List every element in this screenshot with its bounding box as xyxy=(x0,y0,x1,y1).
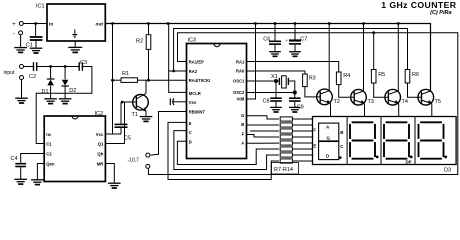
wire F to R9 xyxy=(247,135,280,138)
digit 1 segment diagram xyxy=(319,123,339,141)
node T3 collector xyxy=(362,22,365,25)
svg-text:C3: C3 xyxy=(80,60,87,66)
wire RB0 to -10,7 switch xyxy=(150,112,186,156)
ground under C9 xyxy=(289,106,301,108)
svg-text:E: E xyxy=(313,143,316,148)
svg-text:Vss: Vss xyxy=(189,100,197,105)
svg-text:OSC1: OSC1 xyxy=(233,79,245,84)
svg-text:out: out xyxy=(96,21,104,27)
svg-text:C2: C2 xyxy=(46,151,52,156)
svg-text:T3: T3 xyxy=(368,99,374,105)
svg-text:+: + xyxy=(285,38,288,43)
wire segment D wrap xyxy=(177,141,279,164)
svg-text:T5: T5 xyxy=(435,99,441,105)
node R2 top xyxy=(147,22,150,25)
capacitor C3 xyxy=(78,62,80,71)
svg-text:C: C xyxy=(340,144,344,149)
svg-text:DP: DP xyxy=(406,160,412,165)
wire +V down to IC2 Vcc xyxy=(105,24,112,135)
svg-text:Q1: Q1 xyxy=(98,141,104,146)
svg-text:RA1/EP: RA1/EP xyxy=(189,59,204,64)
wire RA0 to R3 xyxy=(247,71,305,74)
diode D2 xyxy=(64,67,66,80)
ground under Qen xyxy=(31,179,44,181)
wire RA1 to R4 xyxy=(247,62,339,73)
svg-text:D: D xyxy=(189,140,192,145)
input terminal top xyxy=(20,65,24,69)
node T2 collector xyxy=(328,22,331,25)
wire G to R7 xyxy=(247,116,280,119)
svg-text:+: + xyxy=(12,21,16,28)
digit 4 xyxy=(420,121,442,123)
capacitor C2 xyxy=(33,62,35,71)
svg-text:E: E xyxy=(189,121,192,126)
IC1 ground pin stem xyxy=(74,41,76,47)
ground under T1 xyxy=(140,116,153,118)
ground under C7 xyxy=(289,51,301,53)
svg-text:input: input xyxy=(4,70,15,76)
svg-text:R4: R4 xyxy=(343,73,350,79)
ground under IC1 xyxy=(68,46,82,48)
node R1 left xyxy=(111,79,114,82)
ground under C8 xyxy=(270,106,282,108)
svg-text:MCLR: MCLR xyxy=(189,91,201,96)
svg-text:R2: R2 xyxy=(136,39,143,45)
svg-text:D: D xyxy=(326,154,329,159)
svg-text:R3: R3 xyxy=(309,76,316,82)
digit 3 xyxy=(386,121,408,123)
wire Vdd to rail xyxy=(247,24,256,100)
wire Q1 to T1 base xyxy=(105,102,136,144)
ground under C1 xyxy=(30,47,43,49)
svg-text:F: F xyxy=(242,131,245,136)
capacitor on Vss xyxy=(169,98,171,105)
wire + to IC1 in xyxy=(23,23,47,25)
svg-text:G: G xyxy=(241,113,244,118)
wire wrap B RA1 to R5 and DP loop xyxy=(148,33,457,175)
wire input bottom to ground xyxy=(21,80,23,99)
node IC1 out xyxy=(111,22,114,25)
wire segment C wrap xyxy=(174,131,279,170)
ground under C6 xyxy=(269,51,281,53)
transistor T2 xyxy=(317,89,333,105)
svg-text:B: B xyxy=(241,122,244,127)
svg-text:1 GHz COUNTER: 1 GHz COUNTER xyxy=(381,0,457,10)
wire B to R8 xyxy=(247,124,280,126)
ground under D1 xyxy=(44,98,57,100)
svg-text:C4: C4 xyxy=(11,156,18,162)
svg-text:R6: R6 xyxy=(412,72,419,78)
node MCLR feed xyxy=(167,22,170,25)
svg-text:Qen: Qen xyxy=(46,161,55,166)
wire input to C2 xyxy=(24,66,34,68)
wire rail to MCLR xyxy=(169,24,187,93)
transistor T1 xyxy=(133,95,149,111)
svg-text:R1: R1 xyxy=(122,71,129,77)
svg-text:-10,7: -10,7 xyxy=(128,158,140,164)
input terminal bottom xyxy=(20,76,24,80)
svg-text:Vdd: Vdd xyxy=(236,97,244,102)
svg-text:C8: C8 xyxy=(262,99,269,105)
wire C2 to C3 xyxy=(37,66,78,68)
node R5 junction xyxy=(372,31,375,34)
ground under D2 xyxy=(59,98,72,100)
wire OSC1 to X1 xyxy=(247,80,280,82)
capacitor C1 xyxy=(35,24,37,37)
wire OSC2 to C9 xyxy=(247,92,295,94)
ground under C4 xyxy=(14,178,27,180)
digit 2 xyxy=(352,121,374,123)
svg-text:-: - xyxy=(13,31,15,38)
svg-text:RA2: RA2 xyxy=(189,69,198,74)
display cell dividers xyxy=(346,117,348,165)
wire MR to ground xyxy=(105,164,114,184)
+V rail from IC1 out xyxy=(105,24,430,91)
svg-text:MR: MR xyxy=(97,161,105,166)
capacitor C5 xyxy=(121,101,124,104)
resistor network R7-R14 xyxy=(280,117,292,163)
ground under - terminal xyxy=(14,47,27,49)
svg-text:C2: C2 xyxy=(29,74,36,80)
svg-text:RB0/INT: RB0/INT xyxy=(189,109,206,114)
diode D1 xyxy=(50,67,52,80)
svg-text:T4: T4 xyxy=(402,99,408,105)
svg-text:X1: X1 xyxy=(271,74,278,80)
wire R1 to IC3 RA4 xyxy=(149,79,187,81)
svg-text:Vcc: Vcc xyxy=(96,132,104,137)
wire Qen to ground xyxy=(37,164,44,180)
svg-text:RA0: RA0 xyxy=(236,68,245,73)
svg-text:C1: C1 xyxy=(46,141,52,146)
wire C3 to IC2 nc xyxy=(36,67,92,144)
svg-text:A: A xyxy=(326,125,330,130)
svg-text:B: B xyxy=(340,130,343,135)
wire row4 to R10 xyxy=(250,130,279,132)
svg-text:D3: D3 xyxy=(444,168,451,174)
wire - terminal to ground xyxy=(20,35,22,48)
svg-text:C5: C5 xyxy=(124,136,131,142)
svg-text:(C) PiRa: (C) PiRa xyxy=(430,10,451,16)
svg-text:Qh: Qh xyxy=(97,151,103,156)
node T1 collector xyxy=(147,79,150,82)
svg-text:nc: nc xyxy=(46,132,52,137)
svg-text:C: C xyxy=(189,130,192,135)
node T4 collector xyxy=(397,22,400,25)
wire segment E wrap xyxy=(168,122,279,179)
svg-text:OSC2: OSC2 xyxy=(233,90,245,95)
node D1 xyxy=(49,65,52,68)
svg-text:G: G xyxy=(327,136,331,141)
svg-text:RA1: RA1 xyxy=(236,59,245,64)
svg-text:in: in xyxy=(49,21,53,27)
svg-text:IC1: IC1 xyxy=(36,3,45,9)
svg-text:IC3: IC3 xyxy=(188,37,197,43)
svg-text:A: A xyxy=(241,141,244,146)
display module D3 xyxy=(313,117,457,165)
node D2 xyxy=(64,65,67,68)
node C1 junction xyxy=(34,22,37,25)
svg-text:T2: T2 xyxy=(334,99,340,105)
node C6 top xyxy=(274,22,277,25)
svg-text:RA4/T0CKI: RA4/T0CKI xyxy=(189,78,210,83)
ground under MR xyxy=(108,182,121,184)
node C7 top xyxy=(294,22,297,25)
wires pack to display xyxy=(292,118,312,120)
transistor T3 xyxy=(351,89,367,105)
svg-text:R7-R14: R7-R14 xyxy=(274,167,293,173)
transistor T5 xyxy=(418,89,434,105)
wire wrap A RA2 to R6 xyxy=(174,29,408,72)
svg-text:T1: T1 xyxy=(132,112,138,118)
gnd pin glyph inside IC1 xyxy=(74,30,76,35)
svg-text:F: F xyxy=(313,127,316,132)
svg-text:R5: R5 xyxy=(378,72,385,78)
label R7-R14 box xyxy=(272,163,299,175)
transistor T4 xyxy=(385,89,401,105)
node Vdd feed xyxy=(254,22,257,25)
svg-text:D1: D1 xyxy=(42,89,49,95)
svg-text:C7: C7 xyxy=(300,36,307,42)
ground under input xyxy=(15,97,28,99)
wire A to R11 xyxy=(247,142,280,144)
